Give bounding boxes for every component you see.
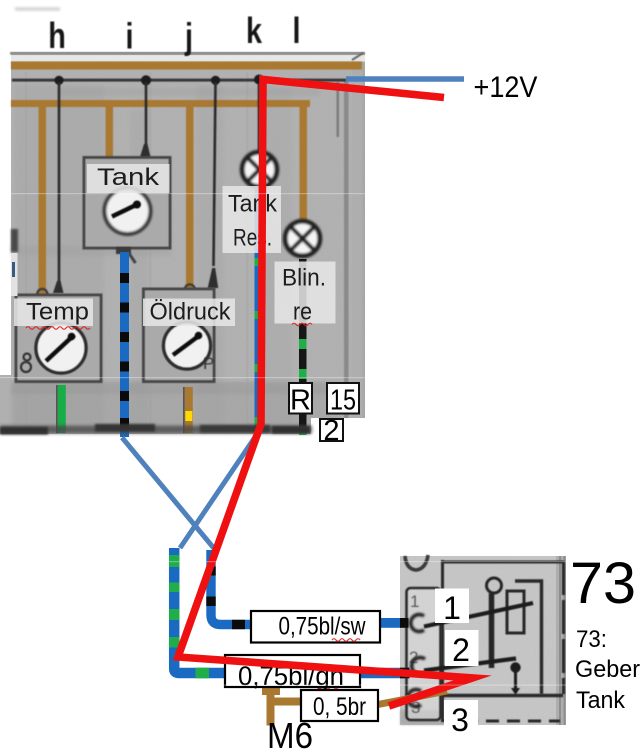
svg-text:0, 5br: 0, 5br [313, 693, 366, 721]
svg-text:0,75bl/sw: 0,75bl/sw [279, 613, 367, 641]
l-column gray wire [344, 80, 349, 430]
wiper arm pin 1 [424, 603, 533, 627]
scan background (Geber Tank component 73) [400, 556, 566, 725]
brown drop wire to Temp [39, 103, 47, 293]
caption 73: Geber Tank [575, 626, 640, 714]
svg-text:Tank: Tank [576, 687, 626, 714]
lamp Tank Reserve [242, 152, 277, 187]
junction node j [211, 76, 220, 85]
connector bell j [208, 268, 219, 288]
terminal box 2 [320, 415, 343, 447]
black wire i column [145, 82, 148, 145]
connector ring Temp [37, 289, 47, 299]
wire brown/yellow below Oeldruck [183, 387, 193, 433]
scan bottom ragged edge [0, 424, 312, 435]
pin contact 2 [412, 658, 425, 675]
screen seam lines [0, 193, 643, 686]
instrument box Oeldruck [144, 289, 215, 382]
svg-text:P: P [203, 354, 214, 373]
instrument box Tank [84, 158, 170, 264]
pin label 1 [435, 589, 469, 627]
black wire j column [214, 82, 216, 266]
svg-text:Temp: Temp [26, 299, 89, 326]
svg-text:Tank: Tank [97, 164, 160, 191]
connector ring Oeldruck [185, 285, 195, 295]
terminal box R [289, 383, 312, 417]
label Tank [87, 164, 170, 193]
crossover line A (blue) [122, 438, 215, 550]
brown drop wire to Tank box [106, 103, 114, 158]
wire bl/gn scan (k column) [255, 189, 260, 435]
svg-text:Tank: Tank [228, 191, 278, 218]
connector bell i [140, 144, 151, 157]
contact dot [510, 662, 520, 672]
ghost smudge top [15, 7, 60, 11]
bus bar 1 (brown supply rail) [11, 62, 362, 70]
svg-text:Res.: Res. [233, 225, 272, 252]
rheostat element [507, 591, 524, 633]
wire label 0,5br [301, 690, 378, 721]
svg-text:h: h [48, 15, 66, 56]
scan bottom right cut [311, 418, 366, 436]
svg-text:j: j [184, 15, 193, 56]
svg-text:73:: 73: [576, 626, 607, 653]
scan background (upper wiring diagram) [0, 52, 365, 434]
svg-text:Blin.: Blin. [282, 265, 326, 292]
pin label 3 [444, 700, 478, 738]
component box outline [441, 560, 564, 722]
brown drop wire to Oeldruck [186, 103, 194, 288]
svg-text:73: 73 [570, 551, 636, 616]
junction node h [54, 76, 63, 85]
short seam near l column [337, 82, 340, 137]
wire 0,75bl/sw (drawn blue) [206, 550, 251, 629]
scan corner mark [352, 53, 363, 60]
wire 0,75bl/gn (drawn blue) [169, 548, 410, 678]
wire label 0,75bl/sw [251, 611, 380, 643]
float pivot circle [487, 578, 502, 593]
svg-text:2: 2 [452, 632, 470, 668]
svg-text:Geber: Geber [575, 656, 640, 683]
svg-text:re: re [293, 299, 312, 326]
svg-text:M6: M6 [267, 715, 313, 750]
label Tank Res [223, 186, 282, 253]
left edge instrument fragment [11, 229, 18, 252]
pin label 2 [445, 630, 479, 668]
label Temp [14, 299, 93, 330]
label Oeldruck [143, 299, 235, 327]
brown drop wire to Blinker lamp [300, 103, 308, 222]
svg-text:1: 1 [410, 592, 419, 611]
instrument box Temp [16, 295, 101, 382]
black wire k column to lamp [258, 84, 261, 152]
connector bell h [53, 281, 64, 293]
svg-text:1: 1 [443, 590, 461, 626]
contact arm pin 2 [424, 659, 516, 671]
svg-text:2: 2 [323, 415, 339, 447]
wire blue dashed (Tank sender lead) [120, 252, 129, 437]
contact stem [514, 667, 517, 690]
svg-text:Öldruck: Öldruck [150, 299, 232, 326]
svg-text:R: R [290, 385, 311, 417]
black wire h column [58, 82, 61, 283]
junction node i [141, 75, 151, 85]
panel seam lines [25, 62, 365, 432]
junction rail (black) [12, 79, 346, 82]
connector strip outline [407, 588, 441, 720]
wire 0,75bl/sw segment to pin 1 [380, 618, 409, 628]
+12V feed line (blue) [346, 76, 464, 82]
svg-text:k: k [246, 10, 263, 51]
terminal box 15 [327, 383, 359, 417]
wire label 0,75bl/gn [225, 655, 360, 691]
tank wall [515, 581, 542, 694]
junction node k [254, 75, 264, 85]
left edge label fragment [11, 253, 18, 296]
wire 0,5br diagonal to pin 3 [378, 691, 447, 705]
svg-text:15: 15 [330, 385, 356, 417]
crossover line B (blue) [180, 432, 259, 548]
svg-text:l: l [292, 10, 300, 51]
wire sw/gn below Blinker lamp [299, 259, 307, 435]
bus bar 2 (brown) [11, 100, 310, 107]
lamp Blinker rechts [285, 221, 320, 256]
svg-text:+12V: +12V [474, 71, 538, 104]
svg-text:3: 3 [451, 702, 469, 738]
pin contact 3 [408, 689, 421, 706]
wire green below Temp [56, 385, 66, 433]
partial scanned digit above connector [405, 555, 428, 570]
svg-text:i: i [125, 15, 133, 56]
contact stem arrow [511, 688, 520, 695]
pin contact 1 [411, 614, 424, 631]
label Blinker re [275, 262, 336, 326]
red +12V trace [178, 80, 473, 707]
left edge wire fragment [12, 262, 15, 277]
float guide rod [489, 593, 495, 668]
wire 0,5br to M6 [262, 688, 304, 726]
